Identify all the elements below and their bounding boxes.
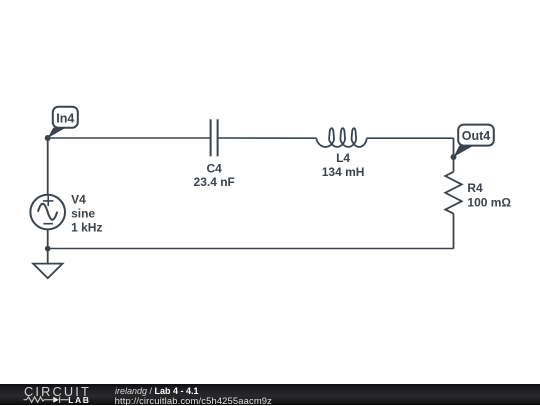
junction dot V4 bottom node <box>45 246 51 252</box>
wire top-left vertical (In4 node to V4 top) <box>47 138 49 195</box>
wire C4 right plate to L4 left terminal <box>218 137 317 139</box>
wire corner down to Out4 node <box>453 138 455 172</box>
wire V4 bottom to ground node <box>47 229 49 263</box>
inductor L4 coil <box>317 128 367 147</box>
svg-text:C4: C4 <box>207 161 223 175</box>
V4 plus sign <box>43 196 53 206</box>
V4 sine wave <box>38 204 57 220</box>
resistor R4 zigzag <box>445 172 461 214</box>
circuitlab logo <box>20 383 120 405</box>
svg-text:1 kHz: 1 kHz <box>71 220 102 234</box>
junction dot node Out4 <box>451 154 457 160</box>
bottom rail wire (R4 to V4 bottom node) <box>48 248 454 250</box>
voltage source V4 circle <box>30 195 65 230</box>
wire top horizontal left (node In4 to C4 left plate) <box>48 137 211 139</box>
footer url text <box>115 395 272 406</box>
footer title text <box>115 386 199 396</box>
capacitor C4 plates <box>211 119 218 156</box>
svg-text:sine: sine <box>71 207 95 221</box>
ground symbol <box>33 264 62 279</box>
footer bar <box>0 384 540 405</box>
svg-text:In4: In4 <box>56 111 74 125</box>
svg-text:L4: L4 <box>336 151 350 165</box>
V4 minus sign <box>43 223 53 225</box>
svg-text:Out4: Out4 <box>462 129 491 143</box>
svg-text:LAB: LAB <box>68 395 90 405</box>
svg-text:100 mΩ: 100 mΩ <box>467 195 511 209</box>
flag tail Out4 <box>454 146 474 157</box>
flag box Out4 <box>458 125 494 146</box>
svg-text:23.4 nF: 23.4 nF <box>194 175 235 189</box>
flag tail In4 <box>48 128 66 138</box>
svg-text:R4: R4 <box>467 181 483 195</box>
junction dot node In4 <box>45 135 51 141</box>
svg-text:134 mH: 134 mH <box>322 165 365 179</box>
wire R4 bottom to bottom rail <box>453 214 455 249</box>
wire L4 right terminal to corner above R4 <box>367 137 454 139</box>
flag box In4 <box>53 107 78 128</box>
svg-text:V4: V4 <box>71 193 86 207</box>
